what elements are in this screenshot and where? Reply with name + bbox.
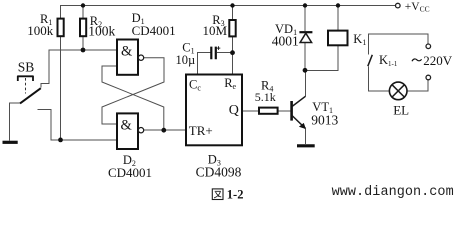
svg-text:&: & — [121, 44, 133, 60]
svg-text:5.1k: 5.1k — [255, 90, 276, 104]
svg-text:4001: 4001 — [272, 33, 299, 48]
svg-text:10M: 10M — [203, 23, 228, 38]
svg-text:CD4001: CD4001 — [108, 165, 152, 180]
svg-text:EL: EL — [393, 102, 409, 117]
svg-text:www.diangon.com: www.diangon.com — [332, 185, 454, 200]
svg-text:&: & — [121, 118, 133, 134]
svg-text:100k: 100k — [27, 23, 54, 38]
svg-text:CD4001: CD4001 — [132, 23, 176, 38]
svg-text:220V: 220V — [423, 53, 453, 68]
svg-text:CD4098: CD4098 — [196, 165, 242, 180]
svg-text:TR+: TR+ — [189, 123, 213, 138]
svg-text:10µ: 10µ — [176, 53, 196, 67]
svg-text:SB: SB — [18, 60, 35, 75]
svg-text:1-2: 1-2 — [227, 188, 244, 202]
svg-text:9013: 9013 — [311, 113, 338, 128]
svg-text:Q: Q — [229, 103, 239, 118]
svg-text:100k: 100k — [88, 24, 115, 39]
